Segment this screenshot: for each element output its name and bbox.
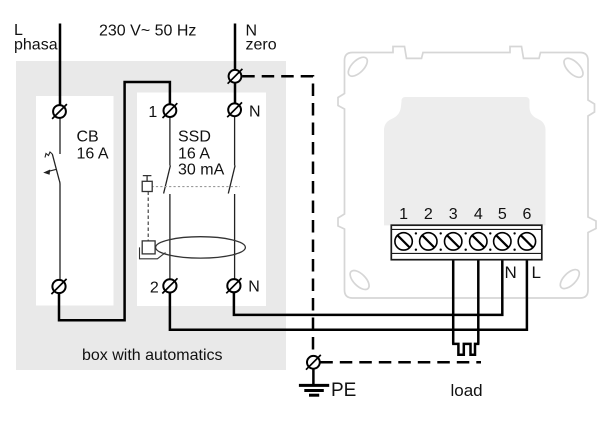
wire: L feed from supply to CB top terminal: [59, 24, 62, 105]
terminal: SSD 1: [163, 103, 178, 118]
SSD test lead (dashed): [147, 192, 149, 241]
terminal block X1: [391, 225, 542, 260]
svg-text:1: 1: [148, 104, 157, 121]
SSD pole N conductor upper: [234, 117, 236, 166]
SSD module body: [137, 93, 266, 307]
terminal: SSD 2: [162, 278, 177, 293]
svg-text:N: N: [505, 263, 517, 282]
mounting plate hole top-left: [345, 54, 370, 79]
terminal: CB top (L): [52, 104, 67, 119]
wire: N junction to SSD N top terminal: [234, 83, 237, 103]
SSD pole L conductor lower: [169, 194, 171, 279]
load connector fork: [452, 344, 479, 355]
breaker CB conductor upper: [59, 119, 61, 155]
svg-text:box with automatics: box with automatics: [82, 347, 223, 364]
svg-text:SSD: SSD: [178, 129, 211, 146]
svg-text:230 V~ 50 Hz: 230 V~ 50 Hz: [99, 23, 196, 40]
CB module body: [36, 96, 114, 306]
node: PE terminal: [306, 355, 321, 370]
SSD toroidal core: [156, 237, 246, 258]
svg-text:6: 6: [522, 206, 531, 223]
svg-text:PE: PE: [331, 380, 356, 401]
enclosure: box with automatics: [16, 61, 286, 370]
SSD pole N contact blade: [228, 166, 235, 194]
screw 4: [470, 233, 487, 250]
thermostat body: [384, 97, 546, 225]
svg-text:N: N: [249, 104, 261, 121]
wire: N junction to PE node (dashed): [242, 76, 313, 355]
svg-text:N: N: [248, 279, 260, 296]
wire: screw 3 to load: [452, 250, 455, 344]
ground PE symbol: [299, 369, 329, 395]
svg-text:2: 2: [150, 280, 159, 297]
svg-text:4: 4: [474, 206, 483, 223]
wire: SSD terminal 2 to screw 6 (L): [170, 250, 527, 330]
svg-text:5: 5: [498, 206, 507, 223]
SSD trip relay: [142, 241, 155, 254]
svg-text:30 mA: 30 mA: [178, 162, 225, 179]
svg-text:16 A: 16 A: [77, 146, 109, 163]
SSD test button: [143, 176, 152, 182]
wire: SSD N bottom terminal to screw 5 (N): [234, 250, 502, 315]
SSD pole L conductor upper: [169, 117, 171, 165]
svg-text:16 A: 16 A: [178, 146, 210, 163]
wire: screw 4 to load: [477, 250, 480, 344]
terminal: SSD N top: [227, 102, 242, 117]
mounting plate hole bottom-right: [557, 266, 582, 291]
node: N junction: [228, 69, 243, 84]
wire: CB bottom terminal to SSD terminal 1 (around module): [59, 82, 170, 320]
screw 5: [494, 233, 511, 250]
svg-text:CB: CB: [77, 129, 99, 146]
breaker CB contact blade: [52, 154, 59, 181]
terminal: CB bottom: [51, 279, 66, 294]
svg-text:2: 2: [424, 206, 433, 223]
wire: PE node to load area (dashed): [320, 361, 481, 364]
screw clamp dots: [415, 232, 516, 251]
svg-text:L: L: [532, 263, 541, 282]
mounting plate hole top-right: [561, 55, 586, 80]
svg-text:zero: zero: [246, 37, 277, 54]
screw 2: [420, 233, 437, 250]
svg-text:phasa: phasa: [14, 37, 58, 54]
breaker CB conductor lower: [58, 181, 61, 280]
mounting plate outline: [338, 47, 596, 299]
SSD mechanical link (dotted): [152, 186, 241, 188]
svg-text:3: 3: [449, 206, 458, 223]
screw 1: [395, 233, 412, 250]
svg-text:load: load: [451, 381, 483, 400]
screw 6: [518, 233, 535, 250]
SSD pole N conductor lower: [234, 194, 236, 279]
svg-text:1: 1: [399, 206, 408, 223]
wire: N feed from supply to N junction terminal: [234, 24, 237, 70]
mounting plate hole bottom-left: [347, 267, 372, 292]
breaker CB latch hook: [45, 152, 52, 158]
SSD pole L contact blade: [164, 166, 171, 194]
breaker CB trip arrow: [47, 169, 57, 172]
terminal: SSD N bottom: [226, 278, 241, 293]
screw 3: [445, 233, 462, 250]
